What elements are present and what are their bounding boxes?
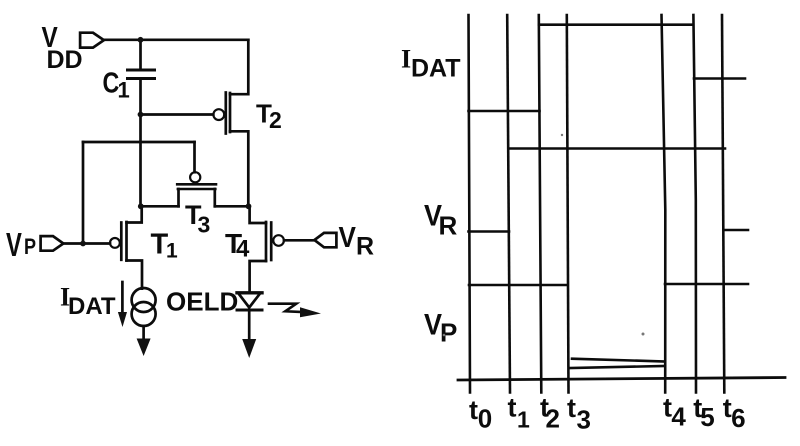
svg-text:6: 6 [731, 403, 745, 433]
svg-text:3: 3 [198, 212, 211, 238]
svg-text:2: 2 [269, 107, 282, 133]
svg-text:3: 3 [577, 405, 591, 435]
svg-text:V: V [6, 227, 22, 264]
svg-text:0: 0 [478, 404, 492, 434]
svg-text:5: 5 [700, 402, 714, 432]
svg-text:t: t [508, 393, 517, 423]
svg-text:t: t [567, 393, 576, 423]
svg-text:t: t [469, 395, 478, 425]
svg-text:R: R [439, 211, 458, 241]
svg-text:1: 1 [118, 78, 130, 103]
svg-text:4: 4 [236, 236, 250, 263]
svg-text:2: 2 [546, 404, 560, 434]
svg-text:DD: DD [47, 46, 83, 74]
svg-text:P: P [24, 235, 36, 259]
svg-text:DAT: DAT [411, 54, 461, 82]
svg-text:DAT: DAT [68, 293, 116, 320]
svg-text:1: 1 [517, 407, 530, 433]
svg-text:I: I [401, 44, 411, 73]
svg-text:1: 1 [166, 240, 178, 263]
svg-text:OELD: OELD [166, 287, 238, 317]
svg-text:P: P [440, 318, 457, 348]
svg-text:V: V [339, 221, 357, 254]
svg-text:4: 4 [671, 402, 686, 432]
svg-text:R: R [356, 233, 374, 261]
